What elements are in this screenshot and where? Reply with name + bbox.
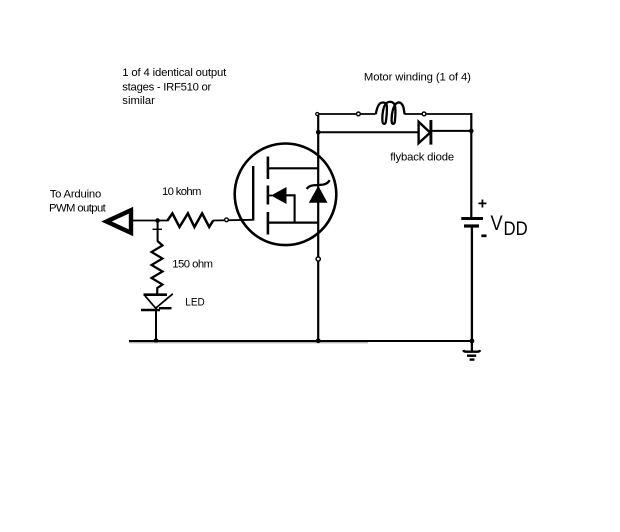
terminal dot top-left: [316, 113, 319, 116]
label: 1 of 4 identical output stages: [122, 67, 227, 107]
wire: triangle to resistor: [133, 220, 169, 222]
svg-text:Motor winding (1 of 4): Motor winding (1 of 4): [364, 72, 471, 84]
resistor R2 150 ohm: [152, 241, 163, 294]
resistor R1 10 kohm: [168, 213, 214, 227]
svg-text:+: +: [478, 196, 487, 213]
wire: right rail top (to battery +): [470, 113, 472, 217]
MOSFET channel (dashed): [267, 157, 270, 235]
MOSFET gate bar: [252, 166, 254, 221]
wire: flyback wire (left of diode): [318, 131, 418, 133]
svg-text:flyback diode: flyback diode: [390, 152, 454, 164]
MOSFET U1 circle: [235, 144, 337, 246]
MOSFET body arrow: [268, 187, 294, 223]
gate terminal dot: [225, 218, 229, 222]
input arrow (To Arduino PWM output): [107, 210, 132, 233]
wire: branch down to 150 ohm: [153, 221, 163, 242]
wire: top motor winding wire (right): [405, 113, 472, 115]
label: To Arduino PWM output: [49, 188, 107, 214]
svg-text:To Arduino: To Arduino: [50, 188, 102, 200]
svg-text:1 of 4 identical output: 1 of 4 identical output: [122, 67, 227, 79]
svg-text:similar: similar: [122, 95, 155, 107]
battery VDD: [461, 219, 483, 227]
wire: right rail bottom (battery - to ground): [471, 226, 473, 341]
svg-text:10 kohm: 10 kohm: [162, 186, 201, 198]
flyback diode D1: [419, 120, 431, 145]
wire: bottom ground wire: [129, 341, 472, 343]
wire: LED to ground rail: [155, 309, 157, 342]
svg-text:PWM output: PWM output: [49, 203, 107, 215]
node: source/bottom-wire junction: [316, 338, 321, 343]
wire: flyback wire (right of diode): [432, 130, 471, 132]
MOSFET drain connection: [269, 167, 318, 169]
svg-text:LED: LED: [185, 297, 205, 309]
node: flyback/right-rail junction: [469, 129, 474, 134]
svg-text:stages - IRF510 or: stages - IRF510 or: [122, 81, 211, 93]
label: VDD: [491, 211, 528, 240]
source terminal dot: [316, 257, 320, 261]
inductor L1 motor winding: [376, 102, 405, 124]
node: LED/bottom-wire junction: [154, 338, 159, 343]
wire: top motor winding wire (left): [317, 113, 376, 115]
wire: resistor to MOSFET gate: [213, 219, 253, 222]
node: drain/flyback junction: [316, 130, 321, 135]
winding terminal dot right: [422, 112, 426, 116]
label: -: [481, 234, 486, 237]
MOSFET body diode: [307, 180, 330, 203]
winding terminal dot left: [357, 112, 361, 116]
node: bottom-right junction: [470, 339, 475, 344]
wire: drain/source vertical line: [317, 114, 319, 341]
node: junction at gate branch: [155, 218, 160, 223]
svg-text:V: V: [491, 211, 504, 235]
svg-text:DD: DD: [504, 219, 528, 240]
MOSFET source connection: [269, 222, 319, 224]
svg-text:150 ohm: 150 ohm: [172, 259, 213, 271]
LED D2: [141, 294, 173, 310]
ground: [463, 341, 480, 360]
